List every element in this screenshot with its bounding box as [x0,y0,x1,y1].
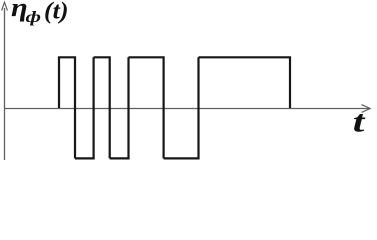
vertical axis [2,2,8,160]
waveform pulse 4 (high) [199,57,291,108]
waveform pulse 1 (high) [59,57,75,158]
waveform dip 1 (low) [75,57,94,158]
svg-text:t: t [353,104,367,139]
svg-text:ф: ф [26,9,41,27]
waveform dip 3 (low) [164,57,199,158]
waveform dip 2 (low) [110,57,129,158]
waveform pulse 3 (high) [129,57,164,158]
svg-text:(t): (t) [44,0,68,24]
waveform pulse 2 (high) [94,57,110,158]
horizontal axis (t) [5,105,371,113]
